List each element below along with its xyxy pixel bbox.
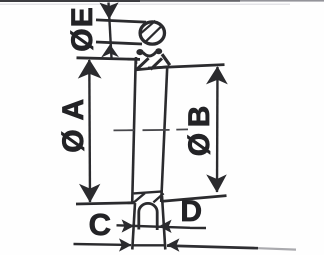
section bottom: inner groove line xyxy=(134,191,163,193)
dimension line ØB (vertical) xyxy=(216,67,219,192)
dimension line E (vertical) xyxy=(109,3,112,59)
arrow E top (pointing down) xyxy=(100,2,119,19)
arrow ØA bottom (pointing down) xyxy=(79,184,100,203)
svg-text:D: D xyxy=(180,195,202,228)
row 1 arrow left (pointing right) xyxy=(122,219,135,232)
centerline dash 3 xyxy=(176,128,188,130)
section right vertical edge xyxy=(161,68,167,203)
arrow ØB bottom (pointing down) xyxy=(206,174,227,192)
dimension row 2 line middle xyxy=(132,244,166,246)
svg-text:C: C xyxy=(89,207,111,242)
raceway channel bottom line xyxy=(96,42,142,44)
row 1 right tail underline of D xyxy=(190,227,206,230)
section bottom hatch right xyxy=(153,193,163,202)
arrow E bottom (pointing up) xyxy=(101,44,119,57)
centerline dash 2 xyxy=(143,129,170,131)
svg-text:ØA: ØA xyxy=(57,90,90,153)
ball hatch stroke 2 xyxy=(145,26,162,43)
row 2 arrow left (pointing right) xyxy=(119,238,132,251)
dimension row 2 line left tail xyxy=(74,244,132,245)
section left vertical edge xyxy=(132,60,136,204)
ball groove arch (dome) xyxy=(139,203,157,230)
dimension row 2 right tail fading xyxy=(258,248,296,249)
dimension line ØA (vertical) xyxy=(88,60,91,202)
bottom face extension line right part xyxy=(161,196,227,202)
section bottom hatch left xyxy=(133,193,145,203)
section top hatch stroke 1 xyxy=(137,58,149,69)
ball hatch stroke 1 xyxy=(141,21,155,34)
left extension vertical below section xyxy=(132,203,135,250)
arrow ØB top (pointing up) xyxy=(206,66,228,84)
extension line B top xyxy=(148,65,225,68)
section top: left groove lip knob xyxy=(136,49,143,55)
section top hatch stroke 2 xyxy=(151,58,162,69)
svg-text:ØE: ØE xyxy=(66,6,99,52)
section top: beveled right edge xyxy=(162,54,170,65)
top page border line xyxy=(0,0,140,2)
section top: groove dip arc xyxy=(143,52,156,56)
ball (detail view, hatched) xyxy=(140,22,164,44)
faint scan smear under border xyxy=(0,4,290,5)
section top block bottom line xyxy=(135,67,169,70)
centerline dash 1 xyxy=(114,129,135,131)
raceway channel top line xyxy=(96,20,146,22)
right extension vertical below section xyxy=(162,196,165,250)
dimension row 2 right tail xyxy=(167,246,258,249)
row 2 arrow right (pointing left) xyxy=(167,238,180,251)
dimension row 1 line (C/D inner) xyxy=(117,225,191,228)
bottom face extension line left part xyxy=(76,203,134,204)
extension line A top xyxy=(77,58,141,60)
row 1 arrow right (pointing left) xyxy=(159,220,172,233)
section top: right groove lip knob xyxy=(155,48,162,54)
svg-text:ØB: ØB xyxy=(183,100,216,156)
arrow ØA top (pointing up) xyxy=(78,59,102,78)
section top block left edge piece xyxy=(135,57,138,64)
